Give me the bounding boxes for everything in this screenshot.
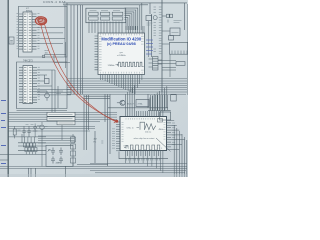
IC U4 QFP body (120, 117, 167, 151)
svg-text:74HC573: 74HC573 (23, 61, 33, 63)
red annotation group (35, 17, 118, 123)
wire bottom verticals (29, 131, 96, 177)
wire top right (149, 3, 188, 57)
IC U2 pin number labels (38, 67, 40, 99)
U3 bottom pins (101, 75, 142, 95)
wire verticals from top bus to mid band (65, 3, 83, 95)
label 4MHz vertical bottom mid (94, 139, 97, 144)
resistor R4 right mid (158, 61, 185, 66)
wire right mid vertical (169, 54, 171, 77)
component labels bottom-left cluster (18, 125, 48, 131)
wire left verticals mid (84, 95, 110, 167)
net list blue labels (146, 40, 153, 54)
left margin blue ticks (1, 101, 6, 164)
wire U2 right connections (17, 70, 72, 113)
label reset annotation under red blob (45, 49, 50, 55)
svg-text:10k: 10k (45, 53, 48, 55)
IC U5 third label box (57, 121, 75, 125)
U3 title text line 2 (107, 42, 136, 46)
wire nested bus bend right of JP1 (125, 3, 151, 30)
crystal X1 label (56, 163, 62, 165)
IC right box 3 large (162, 42, 188, 54)
wire QFP top pin risers (126, 85, 135, 111)
right page edge line (186, 4, 188, 95)
svg-text:Modification IO 4200: Modification IO 4200 (101, 36, 142, 41)
IC U2 (DIP-28) (23, 66, 33, 104)
switch SW1 top right pair (162, 14, 173, 22)
divider pin tick labels (154, 7, 162, 54)
wire right mid horizontals (162, 68, 176, 71)
resistor R1 right of U2 (45, 79, 50, 84)
U4 inside OSC label (127, 128, 140, 130)
svg-text:12MHz: 12MHz (108, 65, 115, 67)
U4 inner pin labels (122, 118, 166, 149)
IC U4 QFP bottom pin labels (127, 158, 160, 161)
U4 inner corner box (158, 119, 163, 123)
left margin small dark ticks (0, 155, 8, 161)
red leader line 2 (44, 23, 116, 122)
Q1 label (127, 104, 134, 106)
wire QFP bottom-left corner L (119, 152, 168, 159)
ground in oscillator box (48, 149, 51, 152)
label above U5 (56, 91, 63, 94)
wire bottom mid box edge (77, 164, 108, 166)
IC U1 left pins (19, 14, 23, 49)
connector strip SIP vertical (71, 134, 76, 167)
IC U4 QFP left pins (116, 122, 120, 151)
wire lower box1 joins (44, 42, 70, 68)
diode D2 (33, 124, 38, 138)
IC small box below band1 (160, 112, 171, 120)
U4 inside bottom waveform (124, 145, 160, 150)
IC U1 (DIP-28) (23, 12, 32, 52)
wire diagonal inside U4 to corner (156, 138, 171, 152)
wire QFP right connections (171, 121, 185, 150)
red leader line 1 (41, 24, 116, 121)
wire U3 top pins (126, 26, 144, 33)
IC right box 1 (162, 28, 180, 36)
wire U1 right pins to verticals (37, 28, 66, 44)
resistor R5 small (171, 95, 177, 101)
wire mid bus band 1 (67, 79, 187, 94)
IC U2 left pins (19, 68, 23, 103)
U3 small center label (117, 52, 126, 57)
IC U4 QFP bottom pins (126, 151, 163, 157)
capacitor C4 (59, 157, 63, 164)
svg-text:XTAL: XTAL (138, 102, 144, 105)
wire long line above U4 (108, 107, 168, 109)
U4 inside mid text (134, 137, 155, 140)
svg-text:gsc: gsc (120, 52, 123, 54)
red scribble circle (35, 17, 46, 25)
wire JP1 bottom pins to U3 (89, 22, 122, 34)
IC U4 QFP top pins (126, 111, 163, 117)
wire top bus (63, 3, 150, 5)
IC U1 right pins (32, 14, 37, 49)
wire mid bus band 2 (8, 113, 117, 122)
diode D3 top right (146, 16, 152, 21)
capacitor C5 (22, 127, 25, 138)
wire right verticals below band1 (148, 95, 171, 110)
connector tab on frame (9, 37, 14, 44)
capacitor C2 (59, 148, 63, 156)
U3 title text line 1 (101, 36, 142, 41)
node circle top right (153, 16, 157, 20)
wire bottom-left band 3 (8, 126, 95, 143)
svg-text:OSC in: OSC in (127, 128, 135, 130)
U4 inside pulse icon (140, 122, 156, 130)
capacitor C1 (51, 148, 55, 156)
IC U3 annotation box (Modification) (98, 33, 145, 75)
wire band1 fan down to U4 top (148, 86, 167, 111)
wire U5 down stub (61, 125, 63, 140)
U4 inside pulse icon caption (145, 132, 151, 134)
svg-text:Hz: Hz (94, 141, 97, 143)
IC U4 QFP right pin labels (172, 123, 175, 145)
resistor network RN1 row (23, 137, 37, 155)
wire QFP bottom pins to band4 (126, 156, 163, 173)
red arrow tip (114, 120, 119, 123)
capacitor C3 (51, 157, 55, 164)
IC U2 right pins (33, 68, 38, 103)
svg-text:when chip has a restart: when chip has a restart (134, 137, 155, 140)
wire bottom-left joins (8, 134, 46, 154)
IC U4 QFP left pin labels (112, 129, 115, 148)
right divider line (161, 0, 163, 92)
IC U1 DIP label (26, 8, 33, 13)
crystal box above U4 (136, 100, 149, 107)
svg-text:BC547: BC547 (127, 104, 134, 106)
connector J2 right ladder (149, 57, 163, 71)
capacitor C6 (27, 127, 30, 138)
connector block JP1 (86, 8, 126, 23)
IC U1 pin number labels (17, 14, 40, 49)
box around U2 (17, 62, 68, 109)
U3 inner pin labels (99, 34, 144, 74)
svg-text:4MHz: 4MHz (56, 163, 62, 165)
transistor Q2 (40, 122, 44, 167)
svg-text:(c) PREAU 04/98: (c) PREAU 04/98 (107, 42, 136, 46)
svg-text:st 14MHz: st 14MHz (117, 54, 126, 57)
IC U4 QFP right pins (167, 121, 172, 150)
wire right edge verticals (174, 125, 187, 177)
resistor R2 vertical (13, 126, 16, 138)
box around U1 (18, 7, 67, 58)
wire bottom band 4 (0, 163, 187, 173)
transistor Q1 above U4 (117, 100, 125, 105)
node CONN label top (43, 0, 66, 4)
resistor R6 tiny on wire (43, 55, 45, 57)
left frame border line (7, 0, 9, 177)
box oscillator group (46, 145, 73, 166)
svg-text:4MHz: 4MHz (159, 129, 164, 131)
U3 left pins (95, 36, 99, 70)
svg-text:4M: 4M (94, 139, 97, 141)
diode D1 right of U2 (45, 91, 50, 101)
IC right box 2 (169, 36, 174, 40)
label top right small (147, 21, 182, 26)
U3 clock waveform (108, 62, 144, 67)
svg-text:2nd osc: 2nd osc (145, 132, 151, 134)
svg-text:CONN-4 DAT: CONN-4 DAT (43, 0, 66, 4)
IC U5 pair boxes (47, 112, 75, 121)
IC U2 label (23, 61, 33, 63)
U4 inside right small text (159, 129, 164, 131)
